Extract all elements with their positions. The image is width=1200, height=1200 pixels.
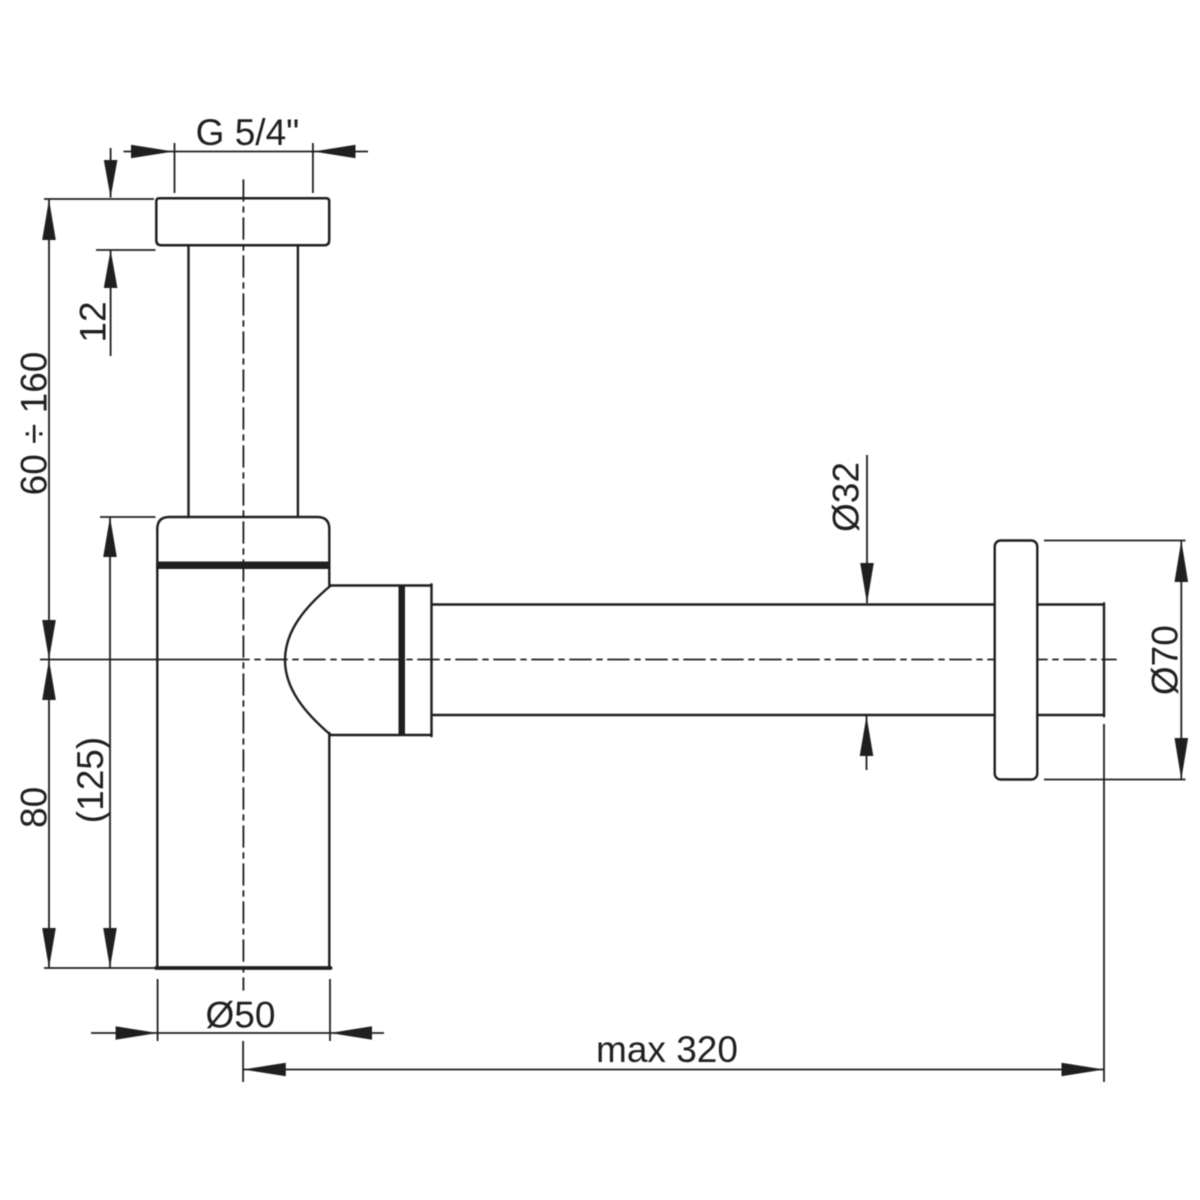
outlet nut top edge — [405, 584, 432, 586]
extension line coupling top — [100, 516, 156, 518]
dimension line 12 upper — [110, 148, 112, 198]
svg-text:12: 12 — [73, 301, 114, 342]
arrow D70 top — [1175, 541, 1189, 583]
arrow 12 top — [104, 160, 118, 198]
arrow D32 top — [860, 563, 874, 604]
dimension line G5/4 — [124, 151, 369, 153]
centerline vertical — [242, 180, 244, 990]
svg-text:60 ÷ 160: 60 ÷ 160 — [14, 352, 55, 496]
body bottom edge — [156, 966, 331, 970]
extension line body bottom — [44, 967, 154, 969]
inlet tube right edge — [297, 245, 299, 517]
body left edge — [156, 528, 158, 967]
extension line flange top — [44, 198, 154, 200]
body right edge lower — [328, 733, 330, 967]
pipe stub bottom edge — [1037, 714, 1104, 716]
arrow D50 right — [330, 1026, 372, 1039]
elbow outlet bottom edge — [331, 734, 399, 736]
arrow max320 right — [1062, 1063, 1105, 1076]
extension line G5/4 right — [312, 143, 314, 193]
svg-text:max 320: max 320 — [596, 1029, 738, 1070]
outlet nut bottom edge — [405, 734, 432, 736]
svg-text:80: 80 — [14, 787, 55, 828]
dimension line D70 — [1180, 541, 1182, 780]
pipe stub top edge — [1037, 603, 1104, 605]
dimension line max320 — [243, 1069, 1104, 1071]
arrow D70 bottom — [1175, 738, 1189, 780]
extension line body bottom-right drop — [329, 979, 331, 1041]
dimension line 60-160 and 80 — [48, 200, 50, 969]
horizontal pipe bottom edge — [432, 714, 995, 716]
centerline horizontal — [228, 659, 1116, 661]
extension line max320 left — [242, 1041, 244, 1082]
dimension line D32 upper — [866, 455, 868, 603]
extension line flange D70 top — [1044, 540, 1186, 542]
body right edge upper — [328, 528, 330, 587]
arrow max320 left — [243, 1063, 286, 1076]
extension line flange bottom — [96, 249, 156, 251]
arrow 60-160 bottom — [42, 620, 56, 660]
dimension line D50 — [91, 1032, 384, 1034]
arrow 60-160 top — [42, 200, 56, 241]
top flange nut — [156, 198, 329, 245]
svg-text:G 5/4": G 5/4" — [196, 112, 300, 153]
arrow 80 top — [42, 660, 56, 701]
extension line flange D70 bottom — [1044, 779, 1186, 781]
outlet washer band — [399, 584, 406, 736]
inlet tube left edge — [187, 245, 189, 517]
elbow outlet bullet nose — [285, 586, 331, 736]
arrow G5/4 right — [313, 145, 355, 158]
extension line body bottom-left drop — [157, 979, 159, 1041]
wall flange — [995, 541, 1038, 780]
dimension line 125 — [109, 517, 111, 968]
arrow 12 bottom — [104, 250, 118, 288]
dimension line D32 lower — [866, 716, 868, 770]
outlet nut right edge — [430, 584, 432, 736]
arrow G5/4 left — [131, 145, 174, 158]
dimension line 12 lower — [110, 250, 112, 356]
arrow 125 top — [103, 517, 117, 557]
svg-text:Ø32: Ø32 — [826, 462, 867, 532]
body compression band — [156, 562, 330, 570]
svg-text:(125): (125) — [70, 737, 111, 823]
pipe stub right edge — [1103, 603, 1105, 716]
horizontal pipe top edge — [432, 603, 995, 605]
arrow 125 bottom — [103, 928, 117, 968]
elbow outlet top edge — [331, 584, 399, 586]
body coupling top — [157, 517, 329, 529]
svg-text:Ø50: Ø50 — [206, 995, 276, 1036]
arrow D32 bottom — [860, 716, 874, 756]
extension line max320 right — [1103, 724, 1105, 1082]
extension line centerline left — [40, 659, 228, 661]
svg-text:Ø70: Ø70 — [1145, 625, 1186, 695]
arrow D50 left — [116, 1026, 158, 1039]
arrow 80 bottom — [42, 928, 56, 968]
extension line G5/4 left — [174, 143, 176, 193]
